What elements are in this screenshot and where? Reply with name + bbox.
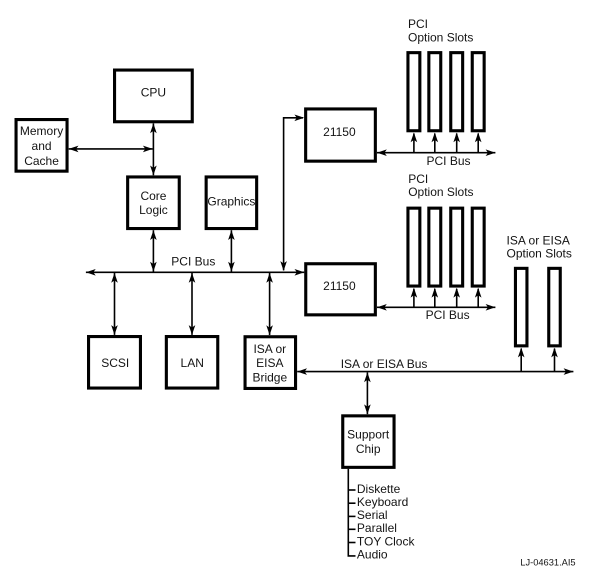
svg-text:ISA or: ISA or [253,342,286,356]
svg-text:Graphics: Graphics [207,194,255,208]
CPU box [115,70,193,122]
wire: ISA or EISA bus [297,368,573,375]
svg-text:Parallel: Parallel [357,521,397,535]
PCI option slot 3 (middle group) [451,208,463,286]
svg-text:CPU: CPU [141,86,166,100]
svg-text:LJ-04631.AI5: LJ-04631.AI5 [520,557,575,567]
wire: main PCI bus [86,269,304,276]
svg-text:PCI Bus: PCI Bus [426,308,470,322]
label: PCI Option Slots (top) [408,17,473,45]
svg-text:Cache: Cache [24,154,59,168]
svg-text:SCSI: SCSI [101,356,129,370]
svg-text:LAN: LAN [181,356,204,370]
wire: Support Chip peripheral tail [348,469,355,556]
wire: Memory and Cache to CPU riser [69,146,153,153]
wire: Graphics to main PCI bus [228,230,235,271]
svg-text:Support: Support [347,427,390,441]
svg-text:Option Slots: Option Slots [408,185,473,199]
svg-text:Option Slots: Option Slots [507,246,572,260]
wire: stub to PCI slot 4 (middle group) [475,288,482,308]
PCI option slot 1 (top group) [408,53,420,131]
Support Chip box [343,416,394,468]
svg-text:PCI Bus: PCI Bus [171,254,215,268]
PCI option slot 2 (middle group) [429,208,441,286]
wire: stub to PCI slot 4 (top group) [475,133,482,153]
ISA or EISA option slot 1 [515,268,527,346]
wire: stub to PCI slot 2 (middle group) [432,288,439,308]
svg-text:Logic: Logic [139,203,168,217]
wire: tick Parallel [348,528,355,530]
svg-text:Core: Core [140,189,166,203]
ISA or EISA option slot 2 [549,268,561,346]
wire: stub to PCI slot 3 (top group) [453,133,460,153]
wire: PCI bus between 21150 U2 and middle slots [377,304,495,311]
svg-text:Chip: Chip [356,442,381,456]
wire: tick TOY Clock [348,542,355,544]
21150 PCI-PCI bridge U2 [306,264,376,315]
svg-text:TOY Clock: TOY Clock [357,534,416,548]
label: PCI Option Slots (middle) [408,172,473,199]
svg-text:21150: 21150 [323,125,356,139]
wire: tick Keyboard [348,502,355,504]
wire: stub to PCI slot 1 (top group) [411,133,418,153]
wire: Core Logic to main PCI bus [150,230,157,271]
wire: stub to ISA or EISA slot 2 [551,348,558,372]
wire: CPU to Core Logic [150,123,157,175]
wire: stub to ISA or EISA slot 1 [518,348,525,372]
PCI option slot 2 (top group) [429,53,441,131]
PCI option slot 1 (middle group) [408,208,420,286]
21150 PCI-PCI bridge U1 [306,109,376,161]
svg-text:Memory: Memory [20,124,63,138]
wire: tick Diskette [348,489,355,491]
Memory and Cache box [16,120,67,172]
wire: main PCI bus to ISA or EISA Bridge [266,273,273,335]
wire: ISA or EISA bus to Support Chip [364,372,371,414]
wire: main PCI bus to LAN [189,273,196,335]
wire: riser from main PCI bus to 21150 U1 [280,115,304,271]
svg-text:Keyboard: Keyboard [357,495,408,509]
Graphics box [206,177,257,229]
LAN box [166,337,217,389]
svg-text:PCI Bus: PCI Bus [427,154,471,168]
svg-text:21150: 21150 [323,279,356,293]
PCI option slot 3 (top group) [451,53,463,131]
svg-text:EISA: EISA [256,356,283,370]
wire: PCI bus between 21150 U1 and top slots [377,149,495,156]
svg-text:and: and [32,139,52,153]
svg-text:Diskette: Diskette [357,482,401,496]
PCI option slot 4 (middle group) [472,208,484,286]
svg-text:Serial: Serial [357,508,388,522]
wire: stub to PCI slot 1 (middle group) [411,288,418,308]
SCSI box [89,337,141,389]
svg-text:ISA or EISA Bus: ISA or EISA Bus [341,357,428,371]
wire: stub to PCI slot 3 (middle group) [453,288,460,308]
svg-text:Option Slots: Option Slots [408,31,473,45]
svg-text:Bridge: Bridge [252,371,287,385]
wire: tick Serial [348,515,355,517]
wire: stub to PCI slot 2 (top group) [432,133,439,153]
Core Logic box [128,177,180,229]
label: ISA or EISA Option Slots [507,234,572,261]
svg-text:Audio: Audio [357,548,388,562]
wire: main PCI bus to SCSI [111,273,118,335]
svg-text:PCI: PCI [408,17,428,31]
PCI option slot 4 (top group) [472,53,484,131]
ISA or EISA Bridge box [245,337,295,389]
